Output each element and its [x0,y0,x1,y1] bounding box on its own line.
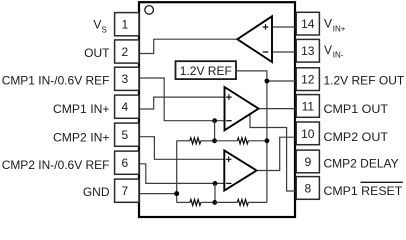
comparator CMP2 [224,150,256,190]
svg-text:13: 13 [301,44,315,58]
svg-text:V: V [93,18,101,32]
A1 - sign [263,51,269,53]
CMP1 - sign [226,120,232,122]
1.2V REF block [176,61,237,79]
svg-text:4: 4 [121,100,128,114]
op-amp A1 (input amplifier, pointing left) [237,16,272,62]
wire pin5 CMP2 IN+ to CMP2 + input [139,137,224,160]
wire CMP1 output to pin 11 [259,108,295,110]
svg-text:CMP2 OUT: CMP2 OUT [324,130,389,144]
svg-text:GND: GND [83,185,110,199]
wire amp -input to pin 13 [272,51,295,53]
wire pin4 CMP1 IN+ to CMP1 + input [139,97,225,109]
svg-text:9: 9 [304,155,311,169]
overline on RESET [361,181,403,183]
divider 1 row: wire GND rail to R1 [177,140,190,142]
junction divider2 midpoint [212,200,217,205]
svg-text:1.2V REF OUT: 1.2V REF OUT [324,73,405,87]
wire pin3 CMP1 IN- to CMP1 inverting input [139,78,225,121]
CMP1 + sign [226,94,232,100]
pin 7 (GND) [115,179,139,202]
svg-text:12: 12 [301,73,315,87]
pin 14 (VIN+) [296,12,319,35]
ground rail vertical (divider1 end to divider2 end) [176,141,178,203]
svg-text:CMP2 IN+: CMP2 IN+ [53,130,110,144]
comparator CMP1 [225,87,259,130]
divider 2 row: wire ground rail to R3 [177,201,190,203]
wire divider1 midpoint to R2 [215,140,238,142]
wire pin6 CMP2 IN- to CMP2 inverting input [139,164,224,184]
pin 3 (CMP1 IN-) [115,67,139,90]
svg-text:CMP1 IN+: CMP1 IN+ [53,102,110,116]
wire CMP1 output tap to pin 8 (CMP1 RESET) [250,114,295,191]
junction CMP2 inverting node [213,181,218,186]
wire REF node to pin 12 [267,80,295,82]
junction REF output node [265,79,270,84]
svg-text:8: 8 [304,181,311,195]
pin 8 (CMP1 RESET) [296,177,319,200]
wire pin2 OUT to amp output [139,39,237,53]
resistor R3 [190,199,201,205]
pin 11 (CMP1 OUT) [296,95,319,118]
svg-text:CMP1 OUT: CMP1 OUT [324,102,389,116]
svg-text:2: 2 [121,45,128,59]
pin 4 (CMP1 IN+) [115,95,139,118]
resistor R4 [237,199,248,205]
svg-text:6: 6 [121,156,128,170]
svg-text:OUT: OUT [84,46,110,60]
pin 6 (CMP2 IN-) [115,151,139,174]
wire REF vertical rail down to bottom divider [266,81,268,202]
wire R1 to divider1 midpoint [201,140,215,142]
svg-text:7: 7 [121,184,128,198]
pin 13 (VIN-) [296,39,319,62]
pin 12 (1.2V REF OUT) [296,68,319,91]
svg-text:11: 11 [302,99,315,113]
svg-text:1.2V REF: 1.2V REF [180,64,232,78]
wire CMP2 inverting node to divider2 midpoint [214,183,216,202]
A1 + sign [263,24,269,30]
svg-text:1: 1 [121,18,128,32]
svg-text:10: 10 [301,127,315,141]
svg-text:3: 3 [121,72,128,86]
pin 9 (CMP2 DELAY) [296,150,319,173]
svg-text:14: 14 [301,17,315,31]
resistor R2 [237,138,248,144]
junction divider1 midpoint [212,138,217,143]
wire R2 to REF rail [248,140,267,142]
resistor R1 [190,138,201,144]
wire R4 to REF rail corner [248,201,267,203]
junction ground node [174,191,179,196]
wire CMP1 inverting node to divider1 midpoint [214,121,216,141]
pin 10 (CMP2 OUT) [296,122,319,145]
pin 2 (OUT) [115,40,139,63]
svg-text:S: S [101,25,106,34]
pin 5 (CMP2 IN+) [115,123,139,146]
wire CMP2 output to pin 10 [257,137,295,170]
junction divider1 on REF rail [265,138,270,143]
IC body U1 [139,2,295,217]
svg-text:CMP1 IN-/0.6V REF: CMP1 IN-/0.6V REF [2,73,110,87]
svg-text:5: 5 [121,128,128,142]
svg-text:IN-: IN- [333,51,344,60]
CMP2 + sign [226,157,232,163]
wire 1.2V REF output to REF node [236,71,267,81]
svg-text:IN+: IN+ [333,25,346,34]
svg-text:CMP1 RESET: CMP1 RESET [324,184,403,198]
svg-text:CMP2 IN-/0.6V REF: CMP2 IN-/0.6V REF [2,158,110,172]
wire R3 to divider2 midpoint [201,201,215,203]
CMP2 - sign [226,182,232,184]
svg-text:V: V [324,43,332,57]
svg-text:V: V [324,17,332,31]
pin 1 indicator circle [145,6,154,15]
wire amp +input to pin 14 [272,26,295,28]
junction CMP1 inverting node [212,118,217,123]
wire pin7 GND to ground node [139,193,177,195]
pin 1 (VS) [115,13,139,36]
svg-text:CMP2 DELAY: CMP2 DELAY [324,156,399,170]
wire divider2 midpoint to R4 [215,201,238,203]
